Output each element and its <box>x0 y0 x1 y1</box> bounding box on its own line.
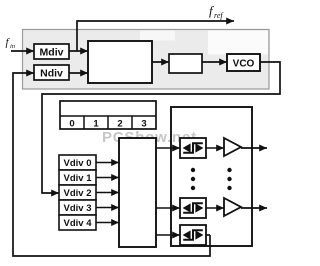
svg-text:Mdiv: Mdiv <box>40 47 64 59</box>
svg-text:Vdiv 4: Vdiv 4 <box>64 218 93 229</box>
svg-text:ref: ref <box>214 11 224 20</box>
svg-text:Vdiv 1: Vdiv 1 <box>64 173 93 184</box>
svg-text:Ndiv: Ndiv <box>40 68 63 80</box>
svg-text:in: in <box>10 43 15 50</box>
svg-text:2: 2 <box>117 119 122 130</box>
svg-text:0: 0 <box>69 119 74 130</box>
svg-text:1: 1 <box>93 119 99 130</box>
svg-text:Vdiv 3: Vdiv 3 <box>64 203 92 214</box>
svg-text:Vdiv 2: Vdiv 2 <box>64 188 92 199</box>
svg-text:VCO: VCO <box>233 59 255 70</box>
svg-text:Vdiv 0: Vdiv 0 <box>64 158 92 169</box>
svg-text:3: 3 <box>141 119 146 130</box>
